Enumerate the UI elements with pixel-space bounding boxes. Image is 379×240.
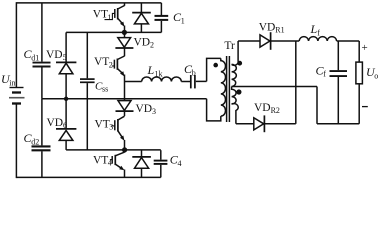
svg-text:1k: 1k xyxy=(155,69,163,78)
svg-text:L: L xyxy=(310,22,318,36)
svg-text:R1: R1 xyxy=(275,26,284,35)
svg-text:2: 2 xyxy=(109,60,113,69)
svg-text:4: 4 xyxy=(178,159,182,168)
svg-text:+: + xyxy=(362,42,368,54)
svg-text:VD: VD xyxy=(47,117,64,129)
svg-text:1: 1 xyxy=(108,13,112,22)
svg-text:4: 4 xyxy=(108,159,112,168)
svg-text:2: 2 xyxy=(150,41,154,50)
svg-text:VD: VD xyxy=(259,22,276,34)
svg-text:d1: d1 xyxy=(31,54,39,63)
svg-text:Tr: Tr xyxy=(224,40,235,52)
svg-text:3: 3 xyxy=(152,107,156,116)
svg-text:o: o xyxy=(374,72,378,81)
svg-text:VD: VD xyxy=(136,103,153,115)
svg-text:VD: VD xyxy=(46,49,63,61)
svg-text:f: f xyxy=(323,70,326,79)
svg-text:5: 5 xyxy=(63,53,67,62)
svg-text:VT: VT xyxy=(93,9,108,21)
svg-text:1: 1 xyxy=(181,16,185,25)
svg-text:VT: VT xyxy=(93,154,108,166)
svg-text:ss: ss xyxy=(102,85,108,94)
svg-text:b: b xyxy=(192,68,196,77)
svg-text:VT: VT xyxy=(95,118,110,130)
svg-text:d2: d2 xyxy=(31,138,39,147)
svg-text:VD: VD xyxy=(254,102,271,114)
svg-text:L: L xyxy=(147,63,155,77)
svg-text:6: 6 xyxy=(63,121,67,130)
svg-text:f: f xyxy=(317,28,320,37)
svg-text:R2: R2 xyxy=(271,106,280,115)
svg-text:3: 3 xyxy=(109,123,113,132)
svg-text:in: in xyxy=(9,79,15,88)
svg-text:VT: VT xyxy=(94,56,109,68)
svg-text:VD: VD xyxy=(134,37,151,49)
